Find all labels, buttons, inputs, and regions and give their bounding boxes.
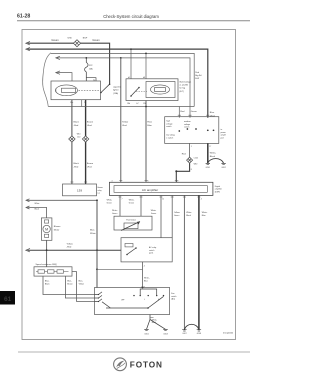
wire line3 to switch pin b8 — [145, 53, 147, 78]
svg-text:e switch: e switch — [166, 136, 173, 139]
red wire below control box with diamond — [189, 143, 191, 157]
svg-text:Yellow: Yellow — [122, 122, 129, 124]
svg-text:b8: b8 — [143, 77, 145, 79]
bus1 left connector arrow — [26, 42, 30, 45]
switch arm — [101, 84, 110, 92]
arc to second ground — [208, 159, 224, 164]
svg-text:7: 7 — [122, 198, 123, 200]
svg-text:lighter: lighter — [113, 89, 119, 92]
pin stub 2a drop — [81, 100, 83, 107]
svg-text:4: 4 — [201, 198, 202, 200]
svg-text:medium: medium — [184, 121, 191, 123]
pin ticks amp box top — [70, 181, 177, 183]
right arm — [148, 296, 164, 308]
svg-text:4: 4 — [112, 181, 113, 183]
white-green wires to thermistor — [119, 195, 121, 216]
svg-text:(+): (+) — [98, 193, 101, 195]
svg-text:Black: Black — [35, 209, 40, 211]
thermistor symbol — [124, 223, 138, 229]
branch line 4 — [56, 58, 190, 107]
linkage dashed — [136, 91, 147, 93]
cigar lighter element (oval) — [56, 85, 78, 96]
section tab black — [0, 291, 15, 305]
resistor output wires — [43, 276, 95, 294]
svg-text:White-: White- — [186, 211, 192, 214]
yellow-red vertical — [120, 58, 122, 182]
relay box 139 — [63, 184, 97, 196]
resistor elements — [38, 270, 45, 273]
splice diamond on wire A — [69, 136, 75, 142]
svg-text:White-: White- — [129, 199, 135, 202]
svg-text:Red: Red — [195, 72, 199, 74]
svg-text:Blue-: Blue- — [67, 281, 72, 283]
bus wire 2 top — [28, 49, 208, 118]
stub red — [178, 107, 180, 118]
svg-text:Blower: Blower — [54, 225, 61, 228]
bottom pin — [149, 315, 151, 320]
svg-text:Illuminating s: Illuminating s — [180, 81, 192, 84]
svg-text:C10: C10 — [77, 136, 80, 138]
svg-text:B-W: B-W — [195, 78, 199, 80]
wire black-red (A) — [71, 100, 73, 184]
pin ticks control box top — [178, 114, 210, 116]
svg-text:Black: Black — [45, 283, 50, 285]
svg-text:AC amplifier: AC amplifier — [142, 188, 158, 192]
svg-text:(AC): (AC) — [171, 298, 175, 301]
switch contacts — [100, 92, 102, 94]
connector arrow B — [56, 71, 60, 74]
junction arrow1/bluewhite — [27, 199, 98, 201]
svg-text:(DSP): (DSP) — [215, 191, 221, 193]
element tip — [55, 89, 57, 93]
svg-text:-Red: -Red — [67, 247, 73, 249]
svg-text:switch: switch — [184, 126, 189, 129]
svg-text:1: 1 — [191, 146, 192, 148]
svg-text:amplifier: amplifier — [215, 188, 223, 191]
contact dots — [133, 295, 134, 296]
svg-text:C105: C105 — [194, 157, 198, 159]
svg-text:Blue-: Blue- — [45, 281, 50, 283]
lamp oval — [151, 85, 170, 94]
svg-text:11: 11 — [162, 198, 164, 200]
svg-text:White: White — [35, 202, 40, 205]
svg-text:Yellow: Yellow — [67, 243, 74, 245]
yellow-red horizontal wire — [28, 249, 122, 251]
svg-text:Red-: Red- — [147, 122, 152, 124]
illuminated switch arm — [131, 88, 139, 97]
svg-text:Digital: Digital — [215, 185, 221, 188]
white-green wire to AC relay — [160, 195, 162, 237]
svg-text:G201: G201 — [144, 333, 148, 335]
wire from arrow B to cigar lighter — [56, 73, 72, 81]
svg-text:G107: G107 — [182, 333, 186, 335]
svg-text:Speed resistance SW(): Speed resistance SW() — [36, 263, 58, 266]
ground tick 2 — [221, 163, 225, 164]
top bridge from relay feed — [140, 289, 157, 295]
svg-text:8: 8 — [191, 169, 192, 171]
svg-text:G201: G201 — [206, 167, 210, 169]
svg-text:18b: 18b — [127, 103, 130, 105]
svg-text:Green: Green — [151, 212, 156, 215]
white-blue wire relay to switch — [142, 262, 144, 288]
AC relay box — [121, 238, 172, 262]
thermistor box — [114, 216, 152, 230]
svg-text:Motor: Motor — [54, 228, 60, 231]
relay internal coil — [125, 244, 133, 247]
splice diamond on bus1 — [73, 40, 80, 47]
svg-text:voltage: voltage — [166, 122, 172, 125]
svg-text:White-: White- — [210, 152, 217, 155]
svg-text:Brown: Brown — [87, 121, 94, 124]
svg-text:-Red: -Red — [87, 125, 93, 127]
junction dot fuse top — [85, 57, 87, 59]
splice diamond on wire B — [82, 136, 88, 142]
svg-text:Green: Green — [92, 38, 100, 42]
control box pins dots — [178, 130, 180, 132]
yellow-green wire to AC relay — [171, 195, 173, 237]
svg-text:Blue: Blue — [210, 112, 215, 114]
svg-text:(15A): (15A) — [113, 92, 118, 95]
svg-text:bmep01100: bmep01100 — [223, 333, 233, 335]
svg-text:OFF: OFF — [121, 300, 124, 302]
AC amplifier box inner — [114, 186, 207, 193]
svg-text:switch: switch — [149, 249, 154, 252]
blower motor connector arrows — [26, 199, 30, 202]
svg-text:w. (4.2W): w. (4.2W) — [180, 85, 189, 87]
FOTON logo emblem — [114, 358, 127, 371]
svg-text:Big-Rd: Big-Rd — [195, 75, 201, 77]
blue-white long wire — [96, 200, 98, 287]
svg-text:G108: G108 — [197, 333, 201, 335]
svg-text:White: White — [90, 232, 96, 235]
lamp inner box — [146, 82, 175, 98]
svg-text:to: to — [221, 128, 223, 131]
stub green — [189, 107, 191, 118]
illuminated switch outer box — [126, 79, 178, 101]
control unit box — [165, 117, 219, 144]
svg-text:switch: switch — [166, 125, 171, 128]
svg-text:White-: White- — [202, 211, 208, 214]
svg-text:-Red: -Red — [74, 166, 80, 168]
svg-text:Black: Black — [210, 156, 216, 158]
svg-text:G202: G202 — [221, 167, 225, 169]
svg-text:White-: White- — [112, 209, 118, 212]
white-black wire to grounds — [207, 143, 209, 163]
AC amplifier box outer — [109, 182, 212, 195]
red-blue vertical (from lamp box pin) — [145, 101, 147, 183]
blower motor — [41, 218, 52, 240]
svg-text:Green: Green — [51, 38, 59, 42]
svg-text:power: power — [221, 131, 227, 134]
svg-text:FOTON: FOTON — [130, 360, 163, 369]
svg-text:4: 4 — [144, 266, 145, 268]
svg-text:Blue: Blue — [202, 215, 206, 217]
svg-text:low voltag: low voltag — [166, 134, 174, 137]
svg-text:B/0P: B/0P — [83, 38, 88, 40]
svg-text:Green: Green — [129, 201, 134, 204]
connector arrow A (line4) — [56, 56, 60, 59]
svg-text:White-: White- — [151, 209, 157, 212]
svg-text:AC relay: AC relay — [149, 246, 156, 249]
svg-text:M: M — [45, 228, 48, 232]
svg-text:amplif: amplif — [221, 135, 227, 137]
cigarette lighter box — [51, 81, 101, 100]
fuse F22 on drop from line4 — [85, 58, 96, 81]
svg-text:Green: Green — [174, 214, 179, 217]
svg-text:Green: Green — [107, 201, 112, 204]
relay internal switch — [127, 248, 136, 255]
svg-text:2: 2 — [178, 181, 179, 183]
harness wavy bracket — [43, 53, 51, 107]
schematic frame — [22, 30, 236, 340]
svg-text:-Red: -Red — [122, 125, 128, 127]
element inner bar — [62, 88, 76, 92]
branch line 3 — [51, 53, 194, 106]
bottom rail — [106, 307, 148, 309]
svg-text:W10: W10 — [77, 134, 81, 136]
svg-text:-Red: -Red — [87, 166, 93, 168]
pin ticks amp box bottom — [119, 196, 201, 198]
bus wire 1 (Green) top — [28, 43, 110, 84]
pin ticks switch box — [141, 287, 154, 318]
svg-text:Yellow-: Yellow- — [174, 212, 180, 214]
svg-text:Yellow: Yellow — [79, 283, 85, 285]
svg-text:G203: G203 — [163, 333, 167, 335]
svg-text:6: 6 — [148, 181, 149, 183]
svg-text:Black: Black — [186, 215, 191, 217]
svg-text:Green: Green — [112, 212, 117, 215]
svg-text:high: high — [166, 121, 170, 123]
switch left contact ticks — [95, 292, 103, 295]
svg-text:139: 139 — [77, 189, 82, 193]
svg-text:-Red: -Red — [74, 125, 80, 127]
svg-text:port1: port1 — [149, 252, 153, 255]
svg-text:relay: relay — [98, 190, 102, 192]
svg-text:White-: White- — [107, 199, 113, 202]
svg-text:b7: b7 — [137, 103, 139, 105]
footer rule — [18, 351, 250, 353]
svg-text:(B.T): (B.T) — [180, 91, 185, 93]
header rule — [17, 20, 250, 22]
svg-text:port: port — [221, 136, 225, 139]
svg-text:61: 61 — [4, 296, 12, 303]
svg-text:for fog: for fog — [180, 88, 186, 90]
junction dot on line4 for yellow-red drop — [120, 57, 122, 59]
svg-text:Blue: Blue — [144, 280, 148, 282]
svg-text:Green: Green — [191, 110, 198, 113]
svg-text:Black: Black — [74, 122, 80, 124]
ground tick 1 — [206, 163, 210, 164]
svg-text:Check-System circuit diagram: Check-System circuit diagram — [103, 14, 159, 19]
svg-text:blower: blower — [98, 187, 104, 189]
svg-text:61-28: 61-28 — [17, 14, 30, 20]
lamp bar — [155, 88, 166, 92]
bus2 left connector arrow — [26, 47, 30, 50]
svg-text:Brown: Brown — [67, 282, 72, 285]
speed resistor box — [34, 267, 72, 276]
wire from arrow2 to motor — [27, 208, 47, 218]
wire brown-red (B) thick — [85, 100, 87, 184]
top pin from relay — [142, 287, 144, 289]
svg-text:17: 17 — [209, 146, 211, 148]
svg-text:Blue: Blue — [147, 125, 152, 127]
svg-text:Blue-: Blue- — [79, 281, 84, 283]
svg-text:Thermistor: Thermistor — [126, 218, 136, 221]
blower switch box — [95, 288, 170, 315]
svg-text:Blue-: Blue- — [90, 230, 95, 232]
svg-text:10A: 10A — [89, 68, 93, 71]
svg-text:b1: b1 — [128, 77, 130, 79]
svg-text:White-: White- — [144, 277, 150, 280]
svg-text:voltage: voltage — [184, 123, 190, 126]
left arm to bottom rail — [102, 302, 111, 308]
horizontal junction to control box — [48, 106, 194, 108]
svg-text:switch: switch — [171, 295, 176, 298]
svg-text:L: L — [144, 299, 145, 301]
svg-text:W40: W40 — [194, 163, 198, 165]
motor to resistor wire — [46, 240, 48, 266]
linkage dashed — [79, 89, 102, 91]
amplifier ground wires right — [183, 195, 185, 329]
svg-text:Brown: Brown — [87, 162, 94, 165]
svg-text:Black: Black — [74, 163, 80, 165]
wire bus2 to switch pin b1 — [130, 49, 132, 79]
svg-text:Fan: Fan — [171, 293, 174, 295]
